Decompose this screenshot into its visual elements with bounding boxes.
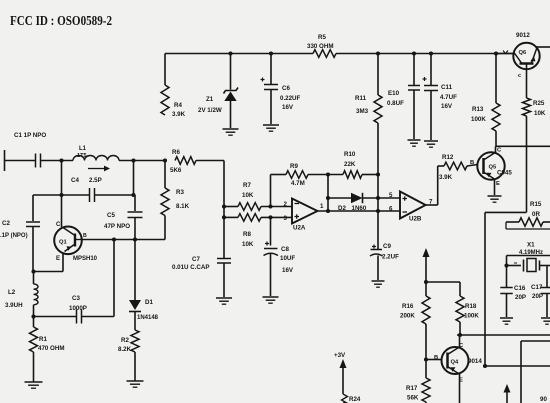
wire collector bus — [457, 334, 550, 336]
svg-text:R15: R15 — [530, 201, 542, 208]
svg-text:R7: R7 — [243, 182, 251, 189]
svg-text:C4: C4 — [71, 177, 79, 184]
svg-text:E: E — [56, 256, 60, 262]
capacitor C5 — [134, 195, 136, 211]
svg-text:47P NPO: 47P NPO — [104, 223, 130, 230]
wire — [134, 312, 136, 331]
resistor R13 — [495, 54, 497, 104]
inductor L1 — [73, 156, 119, 161]
svg-text:1N60: 1N60 — [352, 205, 367, 212]
resistor R2 — [131, 330, 139, 352]
svg-text:C9: C9 — [383, 243, 391, 250]
resistor R16 — [422, 296, 430, 324]
svg-text:2.2UF: 2.2UF — [382, 254, 399, 261]
ground C6 — [263, 124, 279, 126]
svg-text:R4: R4 — [174, 102, 182, 109]
wire Q4 collector — [459, 335, 461, 347]
supply arrow 2 — [504, 384, 511, 393]
svg-text:0R: 0R — [532, 211, 540, 218]
resistor R12 — [438, 165, 444, 167]
wire Q4 emitter — [459, 374, 461, 403]
svg-text:16V: 16V — [282, 267, 294, 274]
svg-text:R1: R1 — [39, 336, 47, 343]
svg-text:U2B: U2B — [409, 216, 422, 223]
wire crystal top line — [507, 255, 550, 257]
ground C9 — [372, 280, 385, 282]
svg-text:1T5: 1T5 — [77, 153, 87, 159]
svg-text:c: c — [518, 73, 521, 79]
node A dot — [59, 158, 63, 162]
svg-text:4.7M: 4.7M — [291, 180, 305, 187]
svg-text:90: 90 — [540, 396, 547, 403]
svg-text:U2A: U2A — [293, 225, 306, 232]
wire Q1 collector — [61, 195, 63, 227]
wire — [308, 174, 343, 176]
svg-text:10UF: 10UF — [280, 255, 295, 262]
resistor R4 — [161, 85, 169, 115]
svg-text:R2: R2 — [121, 337, 129, 344]
capacitor C8 — [270, 217, 272, 245]
svg-text:R6: R6 — [172, 149, 180, 156]
capacitor C6 — [270, 54, 272, 85]
svg-text:Q4: Q4 — [451, 360, 460, 366]
wire branch — [426, 281, 460, 283]
svg-text:C5: C5 — [107, 212, 115, 219]
svg-text:B: B — [470, 160, 474, 166]
wire collector to edge — [496, 145, 550, 147]
ground C16 — [500, 317, 513, 319]
svg-text:56K: 56K — [407, 395, 419, 402]
svg-text:5K6: 5K6 — [170, 167, 182, 174]
wire C4 line — [33, 194, 89, 196]
svg-text:.1P (NPO): .1P (NPO) — [0, 233, 28, 239]
capacitor C11 — [430, 54, 432, 86]
svg-text:0.01U C.CAP: 0.01U C.CAP — [172, 264, 209, 271]
wire — [33, 305, 35, 327]
svg-text:D2: D2 — [338, 205, 346, 212]
wire — [33, 272, 35, 285]
svg-text:C: C — [56, 222, 61, 228]
svg-text:3M3: 3M3 — [356, 108, 369, 115]
svg-text:R10: R10 — [344, 151, 356, 158]
svg-text:8.2K: 8.2K — [118, 346, 132, 353]
resistor R17 — [422, 378, 430, 402]
svg-text:R11: R11 — [355, 95, 367, 102]
svg-text:C3: C3 — [72, 295, 80, 302]
svg-text:8.1K: 8.1K — [176, 203, 190, 210]
svg-text:16V: 16V — [282, 104, 294, 111]
capacitor C9 — [373, 245, 375, 249]
wire — [377, 123, 379, 175]
resistor R7 — [224, 206, 238, 208]
svg-text:FCC ID : OSO0589-2: FCC ID : OSO0589-2 — [10, 14, 112, 29]
node B dot — [131, 158, 135, 162]
wire — [33, 352, 35, 382]
svg-text:L1: L1 — [79, 146, 87, 152]
wire diode feedback riser — [327, 175, 329, 212]
wire — [164, 54, 166, 86]
svg-text:3.9UH: 3.9UH — [5, 302, 23, 309]
input terminal — [4, 150, 6, 171]
wire C2 bottom — [32, 227, 34, 272]
svg-text:B: B — [83, 233, 87, 239]
svg-text:22K: 22K — [344, 161, 356, 168]
wire — [521, 340, 550, 342]
svg-text:2.5P: 2.5P — [89, 177, 102, 184]
inductor L2 — [34, 284, 39, 305]
resistor R18 — [456, 296, 464, 322]
svg-text:10K: 10K — [242, 192, 254, 199]
resistor R11 — [377, 54, 379, 96]
ground R1 — [25, 381, 43, 383]
wire C3 riser — [113, 240, 115, 317]
wire — [164, 216, 166, 240]
svg-text:R9: R9 — [290, 163, 298, 170]
wire — [119, 160, 165, 162]
resistor R5 — [313, 50, 336, 58]
ground Q5 — [488, 195, 502, 197]
svg-text:4.19MHz: 4.19MHz — [519, 250, 543, 256]
svg-text:1000P: 1000P — [69, 305, 87, 312]
wire — [485, 365, 550, 367]
svg-text:4.7UF: 4.7UF — [440, 94, 457, 101]
wire Q4 base — [426, 359, 442, 361]
transistor Q1 — [54, 227, 82, 255]
transistor Q4 — [442, 347, 469, 374]
wire C9 column — [377, 175, 379, 250]
svg-text:+3V: +3V — [334, 352, 346, 359]
svg-text:10K: 10K — [242, 241, 254, 248]
svg-text:MPSH10: MPSH10 — [73, 256, 98, 262]
svg-text:C11: C11 — [441, 84, 453, 91]
wire — [271, 174, 287, 176]
wire U2B output — [426, 204, 438, 206]
resistor R10 — [343, 171, 362, 179]
wire Q5 collector — [495, 146, 497, 152]
wire R18 bottom — [459, 322, 461, 335]
capacitor C17 — [546, 266, 548, 288]
ground R2 — [127, 380, 144, 382]
svg-text:330 OHM: 330 OHM — [307, 43, 333, 50]
resistor R8 — [224, 216, 238, 218]
svg-text:E10: E10 — [388, 90, 400, 97]
svg-text:5: 5 — [389, 192, 393, 199]
svg-text:20P: 20P — [515, 294, 526, 301]
wire rail to Q6 base — [496, 53, 514, 55]
wire U2A output — [318, 210, 401, 212]
svg-text:E: E — [496, 181, 500, 187]
wire R6 to R7R8 — [175, 157, 196, 165]
transistor Q6 — [513, 43, 539, 69]
ground E10 — [408, 139, 421, 141]
svg-text:R17: R17 — [406, 385, 418, 392]
wire C3 left — [34, 316, 77, 318]
ground Z1 — [223, 128, 239, 130]
svg-text:R25: R25 — [533, 100, 545, 107]
svg-text:R3: R3 — [176, 189, 184, 196]
wire jog — [485, 211, 527, 213]
svg-text:2: 2 — [284, 201, 288, 208]
capacitor C7 — [217, 258, 231, 260]
svg-text:2V 1/2W: 2V 1/2W — [198, 107, 222, 114]
crystal X1 — [507, 265, 522, 267]
svg-text:D1: D1 — [145, 299, 153, 306]
svg-text:100K: 100K — [471, 116, 486, 123]
ground C7 — [216, 297, 232, 299]
wire node B vertical — [133, 161, 135, 196]
wire Q6 emitter to edge — [537, 46, 550, 48]
svg-text:9012: 9012 — [516, 32, 530, 39]
wire base line — [82, 239, 165, 241]
svg-text:9014: 9014 — [468, 358, 482, 365]
capacitor C16 — [500, 287, 512, 289]
svg-text:1: 1 — [320, 203, 324, 210]
wire node A vertical — [61, 161, 63, 196]
wire Q1 emitter — [62, 254, 64, 272]
ground C17 — [541, 317, 550, 319]
svg-text:3: 3 — [284, 215, 288, 222]
wire Q5 emitter — [494, 179, 496, 195]
transistor Q5 — [477, 152, 504, 179]
capacitor C3 — [76, 310, 78, 324]
wire long vertical — [484, 212, 486, 366]
svg-text:0.22UF: 0.22UF — [280, 95, 301, 102]
wire — [362, 174, 378, 176]
wire — [164, 161, 166, 189]
capacitor C2 — [26, 221, 40, 223]
svg-text:1N4148: 1N4148 — [137, 315, 159, 321]
svg-text:R13: R13 — [472, 106, 484, 113]
svg-text:C6: C6 — [282, 85, 290, 92]
svg-text:R8: R8 — [243, 231, 251, 238]
wire Q6 collector — [526, 64, 528, 99]
op-amp U2B — [400, 192, 426, 219]
wire — [5, 160, 36, 162]
svg-text:R12: R12 — [442, 154, 454, 161]
resistor R15 — [506, 221, 519, 223]
svg-text:C1 1P NPO: C1 1P NPO — [14, 132, 46, 139]
ground C8 — [263, 296, 279, 298]
capacitor E10 — [413, 54, 415, 86]
svg-text:3.9K: 3.9K — [172, 111, 186, 118]
resistor R1 — [30, 327, 38, 352]
svg-text:C16: C16 — [514, 285, 526, 292]
svg-text:X1: X1 — [527, 242, 535, 249]
svg-text:R16: R16 — [402, 303, 414, 310]
svg-text:20P: 20P — [532, 293, 543, 300]
zener Z1 — [230, 54, 232, 90]
capacitor C4 — [89, 188, 91, 202]
supply arrow — [423, 248, 430, 257]
svg-text:R24: R24 — [349, 396, 361, 403]
svg-text:C17: C17 — [531, 284, 543, 291]
svg-text:C945: C945 — [497, 170, 512, 177]
wire top rail — [165, 53, 313, 55]
ground C11 — [424, 140, 438, 142]
svg-text:Q1: Q1 — [59, 240, 68, 246]
svg-text:L2: L2 — [8, 289, 16, 296]
wire C2 top — [32, 195, 34, 221]
resistor R9 — [286, 171, 308, 179]
wire R9 riser — [270, 175, 272, 207]
wire emitter line — [33, 271, 63, 273]
wire — [134, 352, 136, 381]
svg-text:6: 6 — [389, 206, 393, 213]
svg-text:R18: R18 — [465, 303, 477, 310]
svg-text:200K: 200K — [400, 313, 415, 320]
svg-text:C2: C2 — [2, 220, 10, 227]
svg-text:Q6: Q6 — [519, 50, 528, 56]
resistor R24 partial — [342, 394, 348, 403]
wire C3 right — [82, 316, 114, 318]
diode D2 — [328, 197, 351, 199]
wire — [425, 324, 427, 378]
svg-text:3.9K: 3.9K — [439, 174, 453, 181]
svg-text:C8: C8 — [281, 246, 289, 253]
svg-text:100K: 100K — [464, 313, 479, 320]
diode D1 — [134, 240, 136, 301]
tuning arrow under L1 — [88, 168, 104, 170]
wire — [41, 160, 73, 162]
capacitor C1 — [35, 154, 37, 168]
svg-text:R5: R5 — [318, 34, 326, 41]
svg-text:0.8UF: 0.8UF — [387, 100, 404, 107]
resistor R3 — [161, 188, 169, 216]
svg-text:Q5: Q5 — [489, 165, 498, 171]
svg-text:16V: 16V — [441, 103, 453, 110]
svg-text:470 OHM: 470 OHM — [38, 345, 64, 352]
op-amp U2A — [292, 199, 318, 224]
svg-text:10K: 10K — [534, 110, 546, 117]
svg-text:C7: C7 — [192, 256, 200, 263]
svg-text:Z1: Z1 — [206, 96, 214, 103]
resistor R25 — [523, 98, 531, 116]
